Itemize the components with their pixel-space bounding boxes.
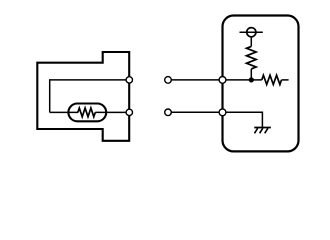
wire (indicator to resistor)	[250, 37, 252, 47]
module outline (rounded box)	[223, 16, 299, 152]
resistor R1 (vertical)	[247, 46, 257, 69]
wire (lower input wire to ground stem)	[171, 112, 262, 127]
pin (upper, on module edge)	[219, 77, 226, 84]
terminal pin 1 (upper, on housing edge)	[126, 77, 132, 83]
terminal (upper open circle, left end)	[165, 77, 172, 84]
wire (upper input wire)	[171, 79, 251, 81]
terminal (lower open circle, left end)	[165, 109, 172, 116]
wire (left lead into lamp)	[50, 111, 78, 113]
wire (right lead from lamp to lower pin)	[95, 111, 127, 113]
wire (top lead from upper pin to left side)	[50, 80, 127, 113]
ground (chassis)	[254, 128, 271, 134]
terminal pin 2 (lower, on housing edge)	[126, 109, 132, 115]
pin (lower, on module edge)	[219, 109, 226, 116]
junction	[249, 77, 254, 82]
lamp DS1 (ballast lamp: resistor in stadium envelope)	[68, 104, 106, 122]
lamp housing outline	[37, 52, 129, 141]
wire (resistor to junction)	[250, 69, 252, 80]
indicator lamp (circle with crossing line)	[240, 28, 263, 37]
resistor R2 (horizontal)	[251, 75, 288, 84]
